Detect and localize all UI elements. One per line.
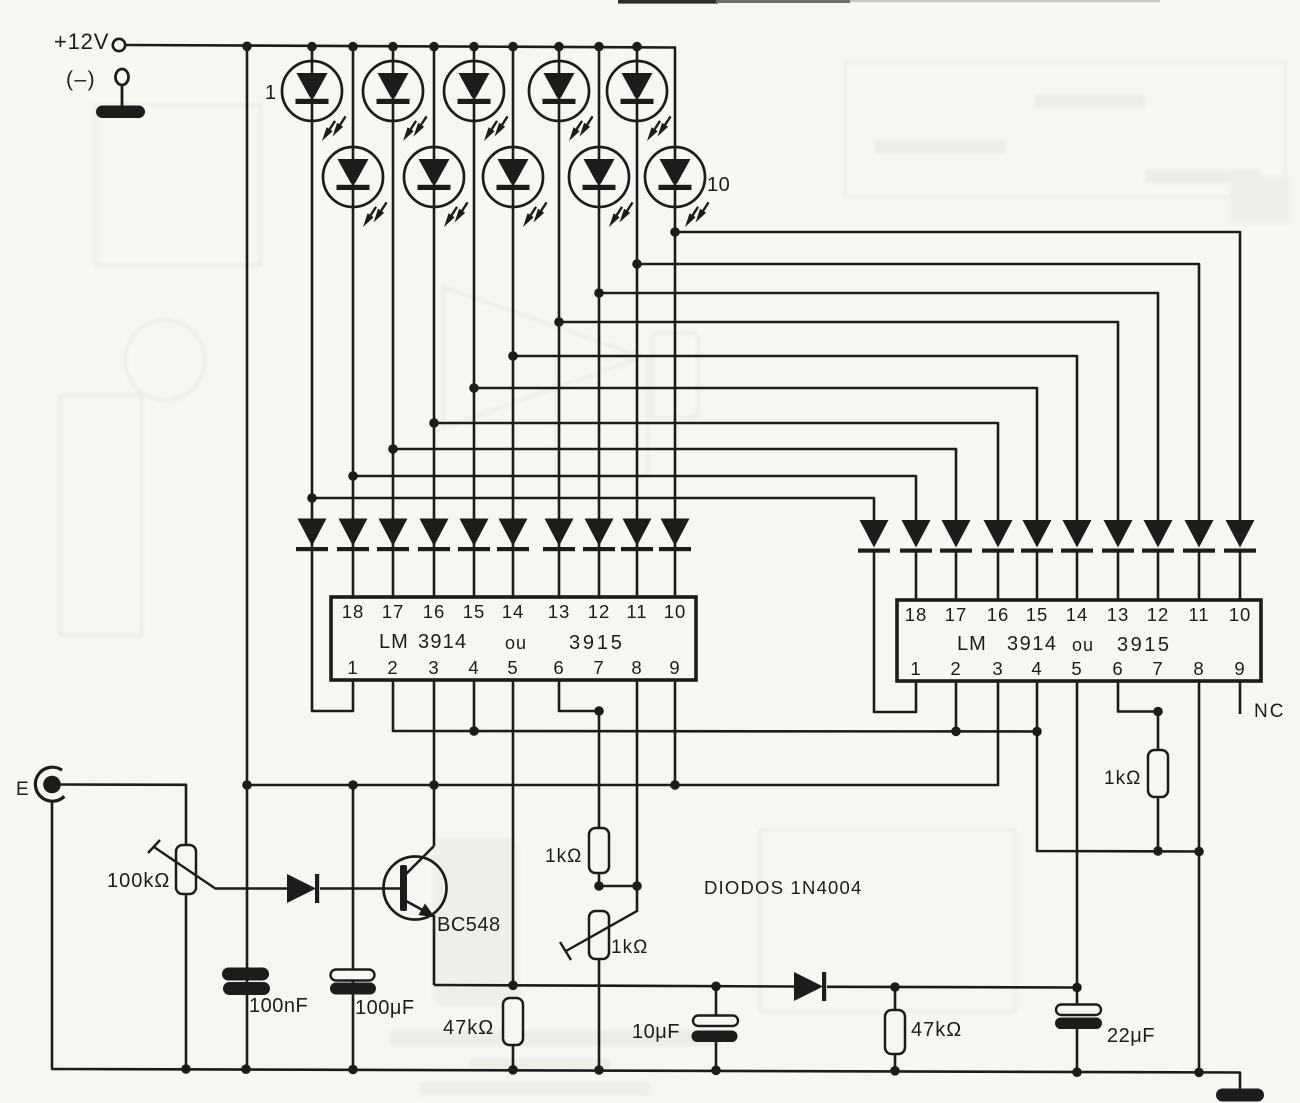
wire Q1 emitter down xyxy=(433,915,436,985)
wire fan-out LED8 to right diode 8 xyxy=(599,293,1158,520)
LED D7 xyxy=(529,61,596,143)
wire +12V distribution rail y=785 xyxy=(247,681,998,785)
LED D5 xyxy=(444,61,511,143)
junction 47k right on signal line xyxy=(890,982,900,992)
junction node fan-out 3 xyxy=(388,444,398,454)
junction 47k left on signal line xyxy=(508,981,518,991)
wire E to potentiometer xyxy=(58,785,186,846)
wire R4 stubs xyxy=(894,987,897,1010)
diode right2 (1N4004) xyxy=(900,520,932,553)
svg-text:8: 8 xyxy=(1193,658,1204,679)
svg-text:1kΩ: 1kΩ xyxy=(545,846,582,867)
wire right diode3 cathode to U2 pin 17 xyxy=(955,552,958,600)
wire fan-out LED10 to right diode 10 xyxy=(675,232,1240,520)
svg-text:9: 9 xyxy=(1234,658,1245,679)
diode right5 (1N4004) xyxy=(1021,520,1053,553)
trimpot P2 1k body xyxy=(589,911,609,959)
wire right diode5 cathode to U2 pin 15 xyxy=(1036,552,1039,600)
wire LED column 6 xyxy=(512,46,515,549)
wire emitter signal line left part xyxy=(434,985,794,987)
diode right3 (1N4004) xyxy=(940,520,972,553)
LED D10 xyxy=(645,147,712,229)
wire LED column 5 xyxy=(473,46,476,549)
junction node fan-out 9 xyxy=(632,259,642,269)
diode right6 (1N4004) xyxy=(1061,520,1093,553)
svg-text:14: 14 xyxy=(502,601,525,622)
svg-text:9: 9 xyxy=(669,657,680,678)
svg-text:100nF: 100nF xyxy=(249,995,308,1017)
svg-text:13: 13 xyxy=(1107,604,1130,625)
ground (-) bar xyxy=(96,106,145,119)
junction node fan-out 7 xyxy=(554,317,564,327)
junction U2 pin8 on bias line xyxy=(1194,847,1204,857)
svg-text:3: 3 xyxy=(992,658,1003,679)
junction U2 pin4 on V- bus xyxy=(1032,727,1042,737)
svg-text:6: 6 xyxy=(553,657,564,678)
wire right diode4 cathode to U2 pin 16 xyxy=(997,552,1000,600)
LED D2 xyxy=(323,147,390,229)
svg-text:100μF: 100μF xyxy=(355,997,415,1019)
svg-text:1: 1 xyxy=(910,658,921,679)
wire trimpot to ground rail xyxy=(598,959,601,1070)
junction node fan-out 5 xyxy=(469,383,479,393)
terminal (-) xyxy=(116,69,129,85)
wire U1 pin5 to signal line xyxy=(512,680,515,985)
wire fan-out LED9 to right diode 9 xyxy=(637,264,1199,520)
trimpot P2 wiper arrow xyxy=(566,911,637,951)
resistor R4 47k (right) xyxy=(885,1010,905,1054)
capacitor C2 100uF xyxy=(330,970,376,995)
resistor R1 1k (left) xyxy=(589,828,609,873)
junction node fan-out 8 xyxy=(594,288,604,298)
junction node fan-out 4 xyxy=(429,418,439,428)
wire U1 pin6-pin7 link xyxy=(559,680,599,711)
svg-text:10: 10 xyxy=(1229,604,1252,625)
wire R1 to trimpot junction xyxy=(598,873,601,886)
wire ground rail (bottom) xyxy=(51,1069,1240,1091)
wire Q1 collector to +12V rail xyxy=(433,785,436,846)
wire diode6 cathode to U1 pin 14 xyxy=(512,551,515,597)
terminal +12V xyxy=(113,39,125,51)
diode D1N4148-left6 (1N4004) xyxy=(497,519,529,552)
junction 10uF on signal line xyxy=(711,982,721,992)
wire right diode7 cathode to U2 pin 13 xyxy=(1117,552,1120,600)
IC U1 LM3914/3915 body xyxy=(331,597,696,680)
wire U2 pin9 NC stub xyxy=(1239,681,1242,714)
capacitor C3 10uF xyxy=(715,987,718,1017)
wire D11 to BC548 base xyxy=(320,887,401,890)
junction dots on +12V rail xyxy=(242,42,252,52)
wire U1 pin2 to V- bus (y=731) xyxy=(393,680,1037,732)
LED D1 xyxy=(282,61,349,143)
svg-text:LM: LM xyxy=(379,631,409,653)
svg-text:16: 16 xyxy=(423,601,446,622)
svg-text:1: 1 xyxy=(347,657,358,678)
LED D9 xyxy=(607,61,674,143)
wire LED column 3 xyxy=(392,46,395,549)
wire LED column 2 xyxy=(352,46,355,549)
wire LED column 9 xyxy=(636,46,639,549)
svg-text:16: 16 xyxy=(987,604,1010,625)
wire +12V rail (top) xyxy=(126,45,677,48)
wire LED column 10 xyxy=(674,47,677,549)
junction node fan-out 6 xyxy=(508,351,518,361)
svg-text:18: 18 xyxy=(905,604,928,625)
wire R3 to ground rail xyxy=(512,1045,515,1070)
junction node fan-out 10 xyxy=(670,227,680,237)
resistor R2 1k (right) xyxy=(1148,750,1168,797)
diode right8 (1N4004) xyxy=(1142,520,1174,553)
svg-text:ou: ou xyxy=(505,633,527,653)
junction U1 pin4 on V- bus xyxy=(473,680,476,731)
svg-text:47kΩ: 47kΩ xyxy=(443,1017,494,1039)
svg-text:10μF: 10μF xyxy=(632,1021,680,1043)
svg-text:22μF: 22μF xyxy=(1107,1025,1155,1047)
svg-text:15: 15 xyxy=(463,601,486,622)
svg-text:11: 11 xyxy=(626,601,647,622)
LED D6 xyxy=(483,147,550,229)
resistor R3 47k (left) xyxy=(503,998,523,1045)
wire diode1 cathode wrap to U1 pin 1 xyxy=(312,551,353,711)
wire fan-out LED7 to right diode 7 xyxy=(559,322,1118,520)
wire diode4 cathode to U1 pin 16 xyxy=(433,551,436,597)
wire left +12V rail drop (x=247) xyxy=(246,46,249,1069)
wire diode9 cathode to U1 pin 11 xyxy=(636,551,639,597)
wire wiper to diode D11 xyxy=(216,887,287,890)
svg-text:12: 12 xyxy=(588,601,611,622)
diode right7 (1N4004) xyxy=(1102,520,1134,553)
diode D12 1N4004 (series) xyxy=(794,972,826,1001)
svg-text:(–): (–) xyxy=(66,68,96,91)
diode D11 (input) xyxy=(287,874,319,903)
wire 100uF branch xyxy=(352,785,355,1069)
potentiometer P1 100k body xyxy=(176,845,196,894)
wire diode2 cathode to U1 pin 18 xyxy=(352,551,355,597)
svg-text:7: 7 xyxy=(1152,658,1163,679)
wire right diode6 cathode to U2 pin 14 xyxy=(1076,552,1079,600)
svg-text:10: 10 xyxy=(707,174,730,196)
wire diode3 cathode to U1 pin 17 xyxy=(392,551,395,597)
diode right9 (1N4004) xyxy=(1183,520,1215,553)
junction 100uF branch at rail xyxy=(348,780,358,790)
svg-text:+12V: +12V xyxy=(54,29,109,54)
input connector E xyxy=(35,767,64,801)
svg-text:DIODOS 1N4004: DIODOS 1N4004 xyxy=(704,877,863,898)
svg-text:6: 6 xyxy=(1112,658,1123,679)
svg-text:3915: 3915 xyxy=(569,632,625,654)
wire U2 pin4 down to bias line xyxy=(1037,681,1199,852)
junction +12V rail at x=247 xyxy=(242,780,252,790)
svg-text:1kΩ: 1kΩ xyxy=(611,937,648,958)
wire R2 to bias line xyxy=(1157,797,1160,851)
wire fan-out LED3 to right diode 3 xyxy=(393,449,956,520)
svg-text:E: E xyxy=(16,779,29,800)
junction node fan-out 1 xyxy=(307,493,317,503)
svg-text:17: 17 xyxy=(382,601,405,622)
diode D1N4148-left4 (1N4004) xyxy=(418,519,450,552)
svg-text:12: 12 xyxy=(1147,604,1170,625)
diode D1N4148-left3 (1N4004) xyxy=(377,519,409,552)
wire right diode10 cathode to U2 pin 10 xyxy=(1239,552,1242,600)
junction U2 pin5 / 22uF xyxy=(1072,983,1082,993)
wire (-) to ground xyxy=(121,85,124,106)
svg-text:LM: LM xyxy=(957,633,987,655)
wire fan-out LED1 to right diode 1 xyxy=(312,498,874,520)
junction node fan-out 2 xyxy=(348,471,358,481)
wire U1 pin7 to R 1k xyxy=(598,711,601,828)
ground symbol (main) xyxy=(1216,1089,1264,1102)
diode D1N4148-left2 (1N4004) xyxy=(337,519,369,552)
wire diode5 cathode to U1 pin 15 xyxy=(473,551,476,597)
svg-text:2: 2 xyxy=(950,658,961,679)
svg-text:1kΩ: 1kΩ xyxy=(1104,768,1141,789)
wire U2 pin6-pin7 link xyxy=(1118,681,1158,712)
wire U2 pin7 to R2 1k xyxy=(1157,712,1160,751)
LED D8 xyxy=(569,147,636,229)
wire U2 pin8 to ground rail xyxy=(1198,681,1201,1072)
wire U2 pin5 to signal end xyxy=(1076,681,1079,987)
wire right diode9 cathode to U2 pin 11 xyxy=(1198,552,1201,600)
wire signal line right part xyxy=(827,985,1077,988)
wire LED column 1 xyxy=(311,46,314,549)
svg-text:NC: NC xyxy=(1254,701,1285,722)
LED D3 xyxy=(363,61,430,143)
wire fan-out LED6 to right diode 6 xyxy=(513,356,1077,520)
junction dots on ground rail xyxy=(181,1064,191,1074)
svg-text:18: 18 xyxy=(342,601,365,622)
svg-text:ou: ou xyxy=(1072,635,1094,655)
scan artifact dark streak at top edge (decorative) xyxy=(618,0,718,4)
diode right4 (1N4004) xyxy=(982,520,1014,553)
junction U2 pin2 on V- bus xyxy=(955,681,958,732)
wire pot bottom to ground rail xyxy=(185,894,188,1069)
wire fan-out LED5 to right diode 5 xyxy=(474,388,1037,520)
IC U2 LM3914/3915 body xyxy=(897,600,1261,681)
diode D1N4148-left9 (1N4004) xyxy=(621,519,653,552)
capacitor C1 100nF xyxy=(222,968,270,996)
wire U1 pin3 to +12V rail (y=785) xyxy=(433,680,436,785)
wire fan-out LED2 to right diode 2 xyxy=(353,476,916,520)
wire LED column 7 xyxy=(558,46,561,549)
wire right diode2 cathode to U2 pin 18 xyxy=(915,552,918,600)
junction U1 pin8 corner xyxy=(632,881,642,891)
svg-text:5: 5 xyxy=(507,657,518,678)
diode D1N4148-left5 (1N4004) xyxy=(458,519,490,552)
wire diode8 cathode to U1 pin 12 xyxy=(598,551,601,597)
svg-text:1: 1 xyxy=(265,82,276,104)
potentiometer P1 wiper xyxy=(154,847,216,889)
wire right diode1 cathode wrap to U2 pin 1 xyxy=(874,552,916,712)
wire diode7 cathode to U1 pin 13 xyxy=(558,551,561,597)
svg-text:7: 7 xyxy=(593,657,604,678)
diode D1N4148-left7 (1N4004) xyxy=(543,519,575,552)
capacitor C4 22uF xyxy=(1076,988,1079,1006)
diode D1N4148-left8 (1N4004) xyxy=(583,519,615,552)
LED D4 xyxy=(404,147,471,229)
junction R2 bottom xyxy=(1153,846,1163,856)
junction U1 pin3 / BC548 collector xyxy=(429,780,439,790)
wire diode10 cathode to U1 pin 10 xyxy=(674,551,677,597)
svg-text:4: 4 xyxy=(1031,658,1042,679)
wire LED column 4 xyxy=(433,46,436,549)
svg-text:3: 3 xyxy=(428,657,439,678)
diode right1 (1N4004) xyxy=(858,520,890,553)
svg-text:3915: 3915 xyxy=(1117,634,1172,656)
junction U1 pin7 xyxy=(594,706,604,716)
wire trimpot junction to U1 pin8 drop xyxy=(599,885,637,888)
diode D1N4148-left1 (1N4004) xyxy=(296,519,328,552)
wire right diode8 cathode to U2 pin 12 xyxy=(1157,552,1160,600)
svg-text:17: 17 xyxy=(945,604,968,625)
svg-text:4: 4 xyxy=(468,657,479,678)
svg-text:BC548: BC548 xyxy=(437,914,501,936)
svg-text:13: 13 xyxy=(548,601,571,622)
wire LED column 8 xyxy=(598,46,601,549)
svg-text:100kΩ: 100kΩ xyxy=(107,870,170,892)
svg-text:2: 2 xyxy=(387,657,398,678)
svg-text:10: 10 xyxy=(664,601,687,622)
junction U2 pin7 xyxy=(1153,707,1163,717)
wire U1 pin8 down xyxy=(636,680,639,912)
transistor Q1 BC548 xyxy=(384,846,447,920)
diode D1N4148-left10 (1N4004) xyxy=(659,519,691,552)
svg-text:14: 14 xyxy=(1066,604,1089,625)
wire E shield to ground rail xyxy=(51,801,54,1069)
svg-text:3914: 3914 xyxy=(1007,633,1058,655)
svg-text:8: 8 xyxy=(631,657,642,678)
svg-text:15: 15 xyxy=(1026,604,1049,625)
svg-text:3914: 3914 xyxy=(418,631,467,653)
wire fan-out LED4 to right diode 4 xyxy=(434,423,998,520)
junction trimpot top xyxy=(594,881,604,891)
wire U1 pin9 to +12V rail xyxy=(674,680,677,785)
svg-text:11: 11 xyxy=(1188,604,1209,625)
svg-text:5: 5 xyxy=(1071,658,1082,679)
diode right10 (1N4004) xyxy=(1224,520,1256,553)
svg-text:47kΩ: 47kΩ xyxy=(911,1019,962,1041)
